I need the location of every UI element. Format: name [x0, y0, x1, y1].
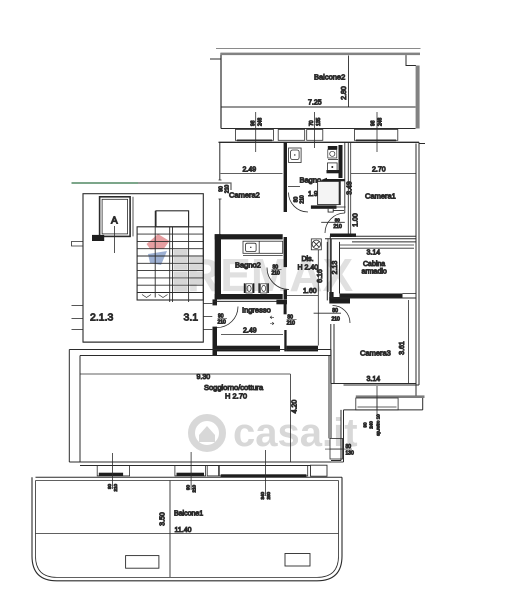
camera3 vertical dim line	[408, 300, 410, 384]
stair landing box	[156, 211, 189, 227]
bagno2 toilet	[244, 283, 255, 293]
bottom-right wall block	[311, 465, 328, 476]
svg-text:2.49: 2.49	[243, 328, 257, 335]
svg-text:80: 80	[335, 217, 341, 222]
cabina armadio left wall (double)	[330, 239, 332, 298]
camera3 left wall (double)	[333, 324, 335, 384]
bagno2 bottom wall (thick)	[215, 294, 283, 299]
right outer wall (double)	[415, 144, 417, 386]
svg-text:Camera2: Camera2	[229, 191, 260, 200]
balcone2 top-right notch	[406, 55, 416, 65]
balcone1 outer boundary	[32, 477, 342, 581]
svg-text:210: 210	[272, 271, 281, 277]
balcone1 divider	[169, 481, 171, 578]
dis lower-leg bottom wall (thick)	[287, 346, 318, 352]
bagno shower (gray)	[318, 181, 341, 204]
balcone2 right parapet (gray)	[416, 66, 420, 129]
camera3 door arc	[333, 306, 351, 324]
soggiorno left wall inner	[79, 356, 81, 463]
bagno toilet	[328, 146, 338, 158]
svg-text:240: 240	[369, 421, 374, 429]
svg-text:3.14: 3.14	[367, 376, 381, 383]
svg-text:135: 135	[316, 117, 322, 126]
camera3 bottom wall lines	[331, 383, 416, 385]
camera2 dim line	[221, 173, 283, 175]
window W2 bagno	[278, 130, 305, 141]
stair treads lines	[137, 234, 203, 292]
svg-text:Balcone1: Balcone1	[174, 511, 203, 518]
stair flight divider left	[154, 211, 156, 298]
dis vertical dim line	[317, 250, 319, 346]
balcone1 inner boundary	[36, 481, 339, 578]
dis vent symbol	[311, 239, 321, 250]
svg-text:11.40: 11.40	[175, 527, 192, 534]
green boundary line	[72, 182, 139, 184]
stair block bottom line	[83, 341, 203, 343]
svg-text:90: 90	[186, 485, 191, 491]
camera1 bottom wall (thick)	[330, 234, 356, 238]
svg-text:REMAX: REMAX	[187, 249, 353, 301]
ingresso top-right corner (thick)	[276, 300, 287, 305]
svg-text:210: 210	[332, 316, 341, 322]
bagno2 door arc	[267, 268, 289, 290]
elevator leader line	[114, 226, 116, 253]
window W4 dim tick	[376, 112, 378, 152]
window W1 (96/246) camera2	[235, 130, 273, 141]
svg-text:80: 80	[346, 444, 352, 450]
elevator shaft inner	[102, 199, 128, 234]
bagno2 right wall lower (thick)	[284, 290, 287, 300]
svg-text:210: 210	[218, 320, 227, 326]
balcone1 planter box left	[126, 556, 159, 569]
window W1 dim tick	[255, 112, 257, 152]
camera2 left door jambs	[219, 179, 222, 181]
bagno shower step line	[333, 210, 344, 212]
svg-text:1.00: 1.00	[353, 213, 360, 227]
camera1/dis wall (double)	[344, 142, 346, 213]
svg-text:210: 210	[287, 320, 296, 326]
bagno shower tray bar	[311, 205, 337, 208]
cabina armadio top wall lines	[325, 238, 416, 240]
window W4 (96/246) camera1	[354, 130, 397, 141]
french window F4 dim tick	[265, 450, 267, 496]
svg-text:sp.retro 10: sp.retro 10	[376, 414, 381, 436]
ingresso right wall (thick)	[284, 300, 287, 315]
stair flight divider center (double)	[169, 227, 171, 302]
stairs outline	[137, 227, 203, 300]
svg-text:246: 246	[378, 117, 384, 126]
svg-text:H 2.40: H 2.40	[298, 265, 319, 272]
bagno left wall (thick)	[284, 142, 287, 212]
svg-text:2.80: 2.80	[341, 86, 348, 100]
bagno shower tab	[328, 209, 333, 212]
svg-text:3.50: 3.50	[160, 512, 167, 526]
dis/cabina wall	[329, 236, 331, 301]
svg-text:3.49: 3.49	[347, 181, 354, 195]
bagno2 top wall (thick)	[215, 234, 283, 239]
soggiorno top wall inner line	[80, 355, 331, 357]
ingresso left wall lower (thick)	[213, 327, 218, 355]
svg-text:Ingresso: Ingresso	[242, 306, 271, 315]
svg-text:96: 96	[371, 120, 377, 126]
soggiorno right door 80/130 box	[330, 438, 343, 459]
svg-text:casa.it: casa.it	[233, 411, 358, 455]
dis top shelf line	[333, 206, 346, 208]
svg-text:A: A	[111, 216, 118, 227]
svg-text:70: 70	[309, 120, 315, 126]
stair flight divider right	[188, 211, 190, 302]
bagno door arc	[289, 193, 309, 213]
watermark casa.it logo	[192, 418, 223, 449]
window W3 small (70/135)	[307, 130, 323, 141]
bagno2 right wall upper (thick)	[284, 237, 287, 267]
svg-text:Balcone2: Balcone2	[314, 73, 345, 82]
svg-text:Cabina: Cabina	[363, 261, 385, 268]
svg-text:3.1: 3.1	[184, 312, 199, 324]
soggiorno bottom wall outer line	[69, 461, 331, 463]
french window F3 small	[207, 466, 218, 476]
ingresso left wall upper (thick)	[213, 299, 218, 305]
stairwell wall notch left	[72, 242, 84, 247]
svg-text:2.13: 2.13	[332, 261, 339, 275]
svg-text:Dis.: Dis.	[302, 256, 314, 263]
ingresso dim line	[221, 334, 283, 336]
ingresso top wall line	[213, 300, 279, 302]
svg-text:1.60: 1.60	[303, 288, 317, 295]
french window F1	[97, 466, 129, 476]
camera1/cabina bottom wall lines	[352, 235, 416, 237]
stair gray treads	[174, 250, 203, 292]
camera3 window box	[356, 398, 398, 410]
soggiorno bottom wall inner line	[80, 465, 311, 467]
entrance door arc	[217, 307, 238, 328]
soggiorno 9.30 dim line	[80, 373, 290, 375]
french window F4 wide	[219, 466, 307, 478]
balcone2 divider line	[348, 56, 350, 108]
bagno bidet	[328, 163, 338, 171]
dis dim line	[287, 295, 319, 297]
svg-text:210: 210	[192, 485, 197, 493]
property boundary line top	[216, 48, 421, 50]
bagno shower top wall / leader (thick)	[324, 179, 345, 181]
svg-text:9.30: 9.30	[197, 374, 211, 381]
right section outer wall	[340, 410, 342, 461]
svg-text:90: 90	[107, 484, 112, 490]
svg-text:Bagno2: Bagno2	[235, 261, 261, 270]
svg-text:90: 90	[363, 422, 368, 428]
camera3 top-left wall corner (thick L)	[329, 292, 333, 301]
svg-text:7.25: 7.25	[308, 100, 322, 107]
balcone1 planter box right	[285, 554, 310, 567]
french window F1 dim tick	[111, 453, 113, 489]
elevator black corner block	[92, 235, 104, 241]
soggiorno left wall outer	[68, 350, 70, 463]
cabina armadio inner top line	[340, 244, 415, 246]
svg-text:130: 130	[346, 451, 355, 457]
cabina bottom wall lines	[331, 297, 416, 299]
camera1 door arc	[325, 213, 345, 233]
french window F2	[175, 466, 206, 476]
svg-text:210: 210	[113, 484, 118, 492]
balcone2 left tick	[210, 58, 221, 60]
bagno sink	[289, 148, 302, 163]
soggiorno top wall outer line	[69, 349, 331, 351]
svg-text:246: 246	[258, 117, 264, 126]
svg-text:340: 340	[260, 492, 265, 500]
balcone1 top band inner	[36, 480, 339, 482]
balcone1 floor line	[36, 533, 339, 535]
bagno dim line	[288, 186, 300, 188]
bagno2 bidet	[258, 283, 269, 293]
ingresso right wall lower (thick)	[284, 330, 286, 351]
svg-text:210: 210	[333, 224, 342, 230]
MAIN PLAN	[32, 49, 425, 581]
ingresso-dis door arrows	[270, 316, 274, 319]
soggiorno right wall	[328, 356, 330, 439]
camera2 left wall upper	[219, 142, 221, 180]
elevator shaft outer	[100, 197, 131, 237]
svg-text:2.70: 2.70	[372, 167, 386, 174]
camera3 balcony parapet (gray)	[356, 395, 425, 398]
bagno right wall (thick)	[339, 145, 343, 178]
ingresso bottom wall (thick)	[214, 346, 280, 352]
balcone2 top parapet (gray)	[220, 53, 420, 56]
stair block outline	[83, 194, 203, 342]
right section bottom wall	[331, 460, 341, 462]
bagno shelf line	[328, 159, 338, 161]
camera2 left wall lower	[219, 199, 221, 236]
stair bottom arrows	[142, 295, 151, 298]
svg-text:armadio: armadio	[362, 269, 387, 276]
window W3 dim tick	[313, 112, 315, 148]
right outer wall top stub	[419, 143, 425, 145]
camera3 right wall step	[415, 385, 417, 396]
svg-text:3.61: 3.61	[399, 341, 406, 355]
svg-text:2.49: 2.49	[243, 167, 257, 174]
balcone2 floor line	[221, 106, 416, 108]
camera3 balcony bottom line	[344, 409, 423, 411]
soggiorno 4.20 dim line	[289, 374, 291, 462]
cabina bottom wall (thick)	[340, 294, 403, 299]
cabina dim line	[340, 247, 415, 249]
stair block right ticks	[203, 303, 212, 305]
camera1 dim line	[351, 173, 416, 175]
bagno2 counter + washer	[243, 241, 283, 255]
camera3 window dim tick	[376, 386, 378, 414]
watermark RE/MAX balloon	[147, 234, 170, 265]
svg-text:210: 210	[300, 195, 306, 204]
outer wall band bottom line	[219, 141, 420, 143]
svg-text:3.14: 3.14	[367, 250, 381, 257]
soggiorno right door dim line	[325, 448, 352, 450]
svg-text:2.1.3: 2.1.3	[90, 312, 114, 324]
svg-text:H 2.70: H 2.70	[225, 392, 247, 401]
french window F2 dim tick	[190, 452, 192, 490]
svg-text:96: 96	[251, 120, 257, 126]
svg-text:Camera1: Camera1	[365, 192, 396, 201]
bagno2 left wall (thick)	[215, 234, 221, 299]
balcone2 left wall	[220, 53, 222, 129]
svg-text:4.20: 4.20	[292, 400, 299, 414]
svg-text:Camera3: Camera3	[360, 349, 391, 358]
ingresso entrance opening jambs	[213, 304, 218, 306]
boundary line gray segment	[138, 183, 231, 190]
outer wall band top line	[221, 128, 416, 130]
camera1 vertical dim line	[350, 142, 352, 236]
bagno bidet base wall (thick)	[327, 170, 341, 173]
stair block left ticks	[72, 305, 84, 307]
svg-text:260: 260	[266, 492, 271, 500]
balcone1 top band outer	[36, 476, 343, 478]
